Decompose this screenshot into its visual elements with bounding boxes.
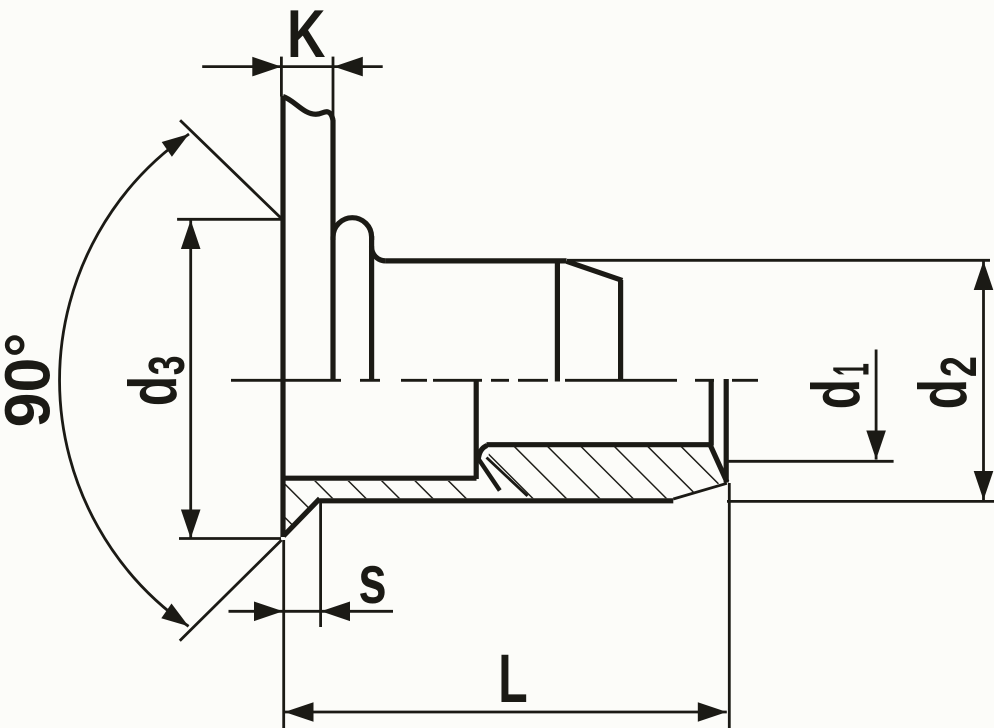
svg-text:1: 1 [823,363,880,376]
svg-text:K: K [287,0,325,71]
svg-text:2: 2 [930,356,988,377]
svg-text:d: d [904,379,980,409]
svg-text:s: s [358,540,387,617]
svg-text:90°: 90° [0,333,64,428]
svg-text:d: d [114,376,190,406]
svg-text:d: d [797,379,873,409]
svg-text:3: 3 [139,355,196,375]
svg-text:L: L [498,640,527,718]
